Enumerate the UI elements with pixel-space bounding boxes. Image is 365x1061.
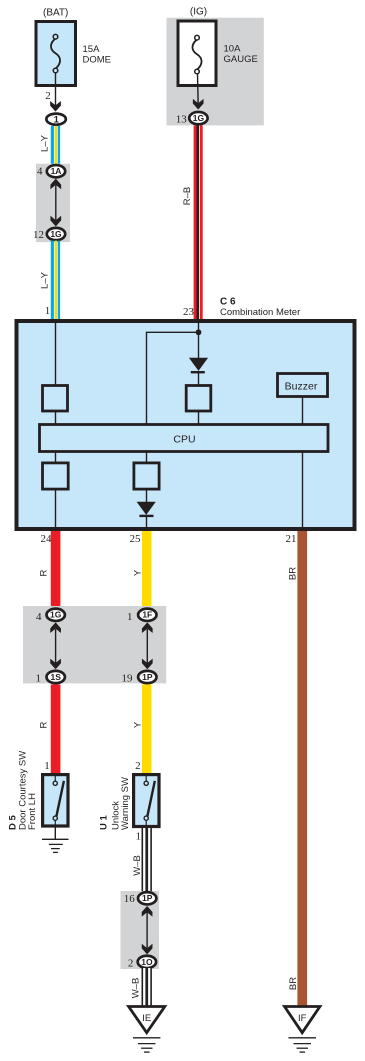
svg-text:2: 2: [128, 957, 134, 969]
arrow into connector 1G: [193, 99, 204, 110]
svg-text:25: 25: [130, 533, 142, 545]
wire CPU to square pin24: [55, 452, 57, 464]
branch wire to CPU: [147, 332, 199, 425]
arrow up toward 1F: [142, 622, 153, 633]
svg-text:21: 21: [286, 533, 297, 545]
svg-text:1A: 1A: [51, 166, 62, 176]
svg-text:Buzzer: Buzzer: [285, 380, 318, 392]
wire 1A to 1G inside block: [55, 185, 57, 222]
svg-text:R: R: [39, 721, 50, 728]
connector 1: [46, 114, 66, 126]
svg-text:1G: 1G: [50, 610, 62, 620]
svg-text:W–B: W–B: [132, 855, 143, 876]
arrow down toward 1P: [142, 659, 153, 670]
svg-text:1G: 1G: [193, 113, 205, 123]
svg-text:24: 24: [41, 533, 53, 545]
svg-text:W–B: W–B: [130, 978, 141, 999]
svg-text:2: 2: [45, 90, 51, 102]
svg-text:1P: 1P: [142, 893, 153, 903]
junction block J/B gray: [36, 164, 70, 242]
wire W-B U1 to connector 1P: [141, 828, 152, 892]
combination meter box C6: [17, 321, 355, 529]
diode D2: [137, 502, 156, 516]
ground triangle IE: [129, 1007, 165, 1033]
svg-text:L–Y: L–Y: [40, 134, 51, 152]
internal block square (pin 25): [134, 463, 159, 489]
svg-text:4: 4: [37, 166, 43, 178]
wire square to diode D2: [146, 489, 148, 503]
svg-text:U 1: U 1: [98, 815, 109, 831]
svg-text:1: 1: [44, 760, 50, 772]
svg-text:GAUGE: GAUGE: [224, 54, 258, 65]
wire square to CPU (pin 23): [198, 411, 200, 425]
connector pin 1F: [138, 609, 156, 621]
connector pin 1G (left): [47, 609, 65, 621]
svg-text:Warning SW: Warning SW: [120, 777, 131, 830]
arrow down toward 1S: [50, 659, 61, 670]
junction connector block gray (bottom): [121, 891, 160, 969]
svg-text:1: 1: [45, 305, 51, 317]
unlock warning switch U1: [134, 775, 159, 828]
buzzer: [278, 374, 328, 397]
wire 1G to 1S: [55, 629, 57, 665]
svg-text:DOME: DOME: [83, 55, 112, 66]
svg-text:15A: 15A: [83, 44, 101, 55]
svg-text:IE: IE: [142, 1013, 151, 1024]
CPU block: [40, 425, 329, 452]
svg-text:1G: 1G: [50, 229, 62, 239]
svg-text:1: 1: [136, 831, 142, 843]
svg-text:(BAT): (BAT): [43, 7, 68, 18]
wire L-Y connector 1 to junction block: [51, 126, 60, 165]
wire meter pin1 to square: [55, 322, 57, 385]
svg-text:1: 1: [127, 611, 133, 623]
wire R-B connector to meter pin 23: [194, 126, 203, 320]
svg-text:1: 1: [36, 673, 42, 685]
wire fuse to connector 1: [55, 72, 57, 108]
internal block square (pin 23): [186, 386, 211, 412]
fuse 15A DOME: [36, 22, 76, 86]
arrow into connector 1: [50, 101, 61, 112]
connector pin 1P (bottom): [138, 892, 156, 904]
junction connector block gray (middle): [23, 606, 166, 683]
diode D1: [189, 358, 208, 372]
wire R junction to door courtesy switch: [51, 684, 61, 773]
connector pin 1A: [47, 165, 65, 177]
connector pin 1S: [47, 671, 65, 683]
arrow up toward 1P: [142, 906, 153, 917]
door courtesy switch D5: [43, 775, 68, 828]
wire meter pin23 down: [198, 322, 200, 358]
wire square to meter bottom pin 24: [55, 489, 57, 528]
internal block square (pin 1): [43, 386, 68, 412]
ground symbol D5: [42, 839, 69, 852]
ground triangle IF: [285, 1007, 320, 1033]
wire L-Y junction to meter pin 1: [51, 241, 60, 320]
wire Y junction to unlock warning switch: [142, 684, 152, 773]
svg-text:BR: BR: [288, 567, 299, 580]
svg-text:1P: 1P: [142, 672, 153, 682]
wire Y meter to junction connector: [142, 531, 152, 609]
internal block square (pin 24): [43, 463, 69, 489]
svg-text:4: 4: [36, 611, 42, 623]
svg-text:1: 1: [54, 115, 60, 126]
svg-text:IF: IF: [298, 1013, 307, 1024]
arrow up toward 1A: [50, 179, 61, 190]
svg-text:Y: Y: [133, 721, 144, 728]
svg-text:2: 2: [135, 760, 141, 772]
wire CPU to square pin25: [146, 452, 148, 464]
ground symbol IF: [289, 1038, 316, 1052]
wire buzzer to CPU: [302, 397, 304, 426]
svg-text:Combination Meter: Combination Meter: [220, 307, 300, 318]
wire D5 to ground: [54, 827, 56, 839]
wire diode to meter bottom pin 25: [146, 516, 148, 528]
svg-text:BR: BR: [288, 977, 299, 990]
wire 1F to 1P: [146, 629, 148, 665]
connector 1G of IG circuit: [189, 112, 207, 124]
connector pin 1P: [138, 671, 156, 683]
fuse 10A GAUGE: [178, 21, 216, 86]
svg-text:10A: 10A: [224, 44, 242, 55]
svg-text:1O: 1O: [141, 957, 153, 967]
svg-text:13: 13: [176, 113, 188, 125]
svg-text:R: R: [39, 569, 50, 576]
svg-text:23: 23: [183, 306, 195, 318]
ground symbol IE: [133, 1038, 160, 1052]
connector pin 1O: [138, 956, 156, 968]
svg-text:L–Y: L–Y: [40, 271, 51, 289]
wire fuse to connector 1G: [197, 73, 200, 106]
wire square to CPU: [55, 411, 57, 425]
connector pin 1G: [47, 228, 65, 240]
arrow down toward 1G: [50, 216, 61, 227]
wire diode to square: [198, 373, 200, 385]
svg-text:R–B: R–B: [182, 187, 193, 205]
svg-text:Y: Y: [133, 569, 144, 576]
wire R meter to junction connector: [51, 531, 61, 609]
wire BR meter to ground IF: [297, 531, 307, 1007]
svg-text:12: 12: [33, 229, 44, 241]
wire 1P to 1O: [146, 912, 148, 950]
svg-text:1S: 1S: [50, 672, 61, 682]
svg-text:C 6: C 6: [220, 296, 236, 307]
wire W-B connector to ground IE: [141, 968, 152, 1007]
svg-text:CPU: CPU: [173, 433, 195, 445]
wire CPU to meter bottom pin 21: [302, 452, 304, 529]
junction block gray around IG fuse: [167, 18, 264, 126]
svg-text:(IG): (IG): [190, 6, 207, 17]
svg-text:1F: 1F: [142, 610, 152, 620]
junction node dot: [196, 329, 202, 335]
arrow up toward 1G: [50, 622, 61, 633]
svg-text:16: 16: [124, 893, 136, 905]
arrow down toward 1O: [142, 944, 153, 955]
svg-text:Front LH: Front LH: [27, 793, 38, 830]
svg-text:19: 19: [122, 673, 134, 685]
